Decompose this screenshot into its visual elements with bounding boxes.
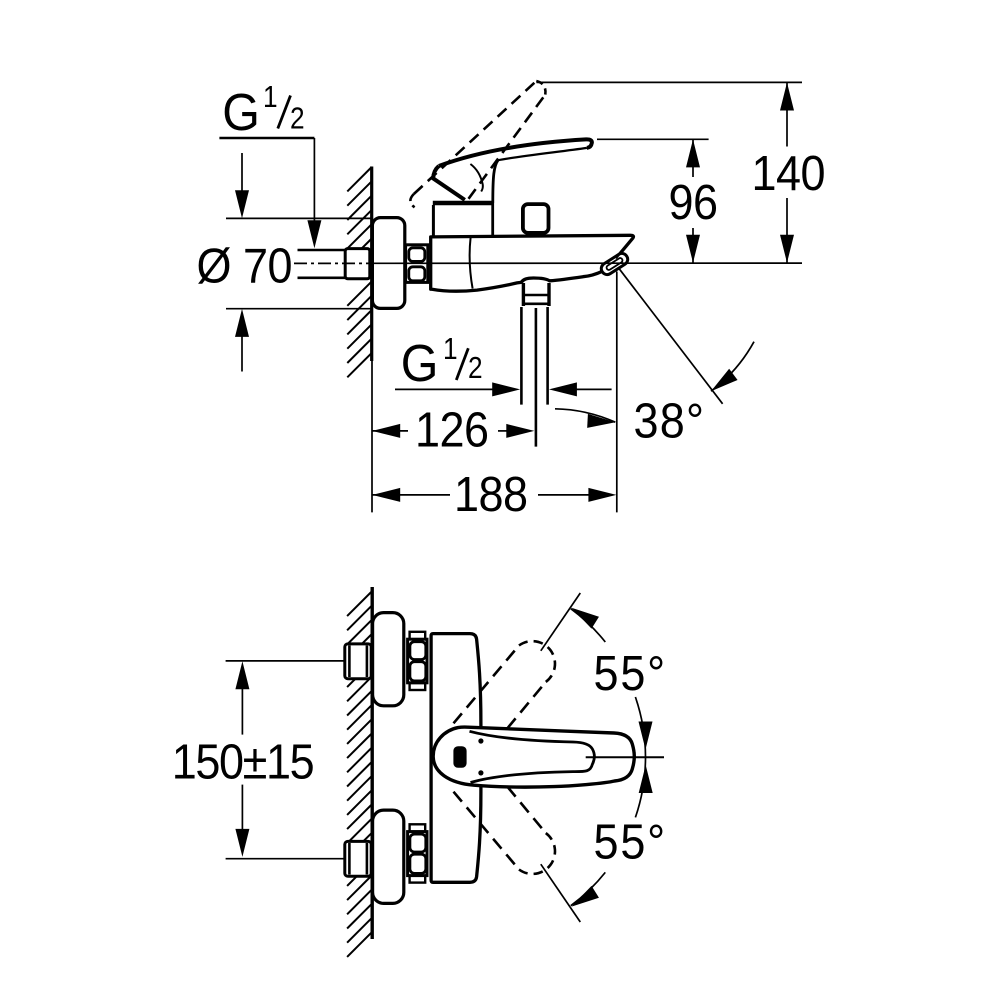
dim G1/2 lower (hose): [395, 388, 497, 390]
svg-text:Ø 70: Ø 70: [197, 238, 293, 293]
escutcheon top (front): [373, 613, 404, 706]
supply elbow square: [345, 249, 370, 279]
55deg dimension arcs: [571, 609, 606, 642]
supply pipe stub behind wall: [298, 250, 346, 278]
body contour line: [470, 238, 473, 289]
svg-text:1: 1: [443, 332, 457, 366]
handle axis centerline: [586, 756, 664, 758]
dim 188: [372, 494, 450, 496]
hose collar: [523, 283, 549, 306]
dim G1/2 top: [219, 138, 314, 225]
handle dome + lever (front view): [433, 727, 634, 787]
55deg extension lines: [541, 593, 581, 651]
svg-text:55°: 55°: [594, 646, 667, 701]
dashed handle down position (front): [454, 787, 556, 874]
38deg axis line: [618, 267, 723, 404]
union nut (side view): [406, 245, 428, 283]
svg-text:188: 188: [454, 467, 528, 522]
nut stubs: [410, 632, 426, 640]
svg-text:2: 2: [468, 351, 482, 385]
supply hex fitting top: [345, 644, 371, 679]
dots: [478, 738, 483, 743]
wall (front view): [371, 587, 374, 939]
temperature indicator blob: [453, 746, 466, 768]
centerline axis: [294, 262, 372, 264]
spout tip inner line: [616, 243, 630, 259]
aerator tip (stadium): [599, 251, 630, 276]
dim O70: [226, 153, 372, 372]
union nut top (front): [408, 639, 427, 683]
svg-text:2: 2: [290, 102, 304, 136]
G1/2 slashes: [278, 96, 291, 129]
shower hose: [521, 307, 547, 447]
38deg arcs: [555, 409, 615, 422]
wall (side view): [370, 167, 373, 362]
lever inner contour: [470, 731, 595, 782]
svg-text:55°: 55°: [594, 814, 667, 869]
dim 126: [372, 430, 408, 432]
dim 140: [537, 81, 803, 83]
handle lever (solid position): [433, 139, 592, 203]
svg-text:126: 126: [415, 402, 489, 457]
dim 150+-15: [241, 687, 243, 735]
supply hex fitting bottom: [345, 841, 371, 876]
diverter knob: [523, 204, 549, 233]
svg-text:96: 96: [669, 175, 718, 230]
svg-text:G: G: [401, 334, 438, 392]
dashed handle up position (front): [454, 641, 555, 728]
wall hatching (top drawing): [347, 167, 371, 377]
extension lines wall / spout: [371, 361, 373, 512]
faucet body (side view): [431, 235, 634, 291]
svg-text:150±15: 150±15: [172, 734, 314, 789]
svg-text:38°: 38°: [634, 394, 706, 449]
escutcheon bottom (front): [373, 810, 404, 903]
handle lever (dashed raised position): [410, 81, 545, 207]
svg-text:G: G: [222, 83, 259, 141]
wall hatching (bottom drawing): [347, 591, 372, 957]
svg-text:140: 140: [752, 146, 826, 201]
svg-text:1: 1: [263, 80, 277, 114]
body slab (front view): [431, 634, 481, 883]
dim 96: [597, 138, 709, 140]
cartridge block: [433, 203, 493, 236]
union nut bottom (front): [408, 832, 427, 876]
escutcheon (side view): [372, 218, 404, 309]
supply pipes (front view): [226, 660, 345, 662]
